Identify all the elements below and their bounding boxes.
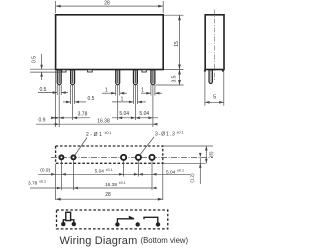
svg-text:(1.2): (1.2) — [190, 173, 195, 183]
svg-text:16.38: 16.38 — [105, 182, 117, 188]
svg-text:0.5: 0.5 — [32, 56, 38, 63]
svg-text:±0.1: ±0.1 — [119, 181, 126, 185]
svg-text:5: 5 — [213, 95, 216, 101]
svg-text:5.04: 5.04 — [139, 111, 149, 117]
svg-text:0.5: 0.5 — [88, 96, 95, 102]
svg-text:5.04: 5.04 — [166, 169, 176, 175]
svg-text:0.9: 0.9 — [39, 118, 46, 124]
svg-text:1: 1 — [141, 87, 144, 93]
svg-text:5.04: 5.04 — [119, 111, 129, 117]
svg-text:3.78: 3.78 — [28, 181, 38, 187]
svg-text:(6): (6) — [209, 151, 214, 157]
svg-text:0.5: 0.5 — [40, 87, 47, 93]
svg-text:3.78: 3.78 — [78, 111, 88, 117]
svg-text:±0.1: ±0.1 — [177, 130, 184, 134]
svg-text:1: 1 — [105, 87, 108, 93]
svg-text:Wiring Diagram: Wiring Diagram — [60, 235, 138, 247]
svg-text:28: 28 — [104, 1, 110, 7]
svg-text:±0.1: ±0.1 — [105, 131, 112, 135]
svg-text:15: 15 — [174, 41, 180, 47]
svg-text:(0.9): (0.9) — [40, 167, 50, 173]
svg-text:±0.1: ±0.1 — [106, 168, 113, 172]
svg-text:5.04: 5.04 — [95, 169, 105, 175]
svg-text:16.38: 16.38 — [97, 119, 110, 125]
svg-text:1: 1 — [121, 96, 124, 102]
svg-text:2-Ø1: 2-Ø1 — [86, 132, 104, 138]
svg-text:±0.1: ±0.1 — [177, 169, 184, 173]
svg-text:(Bottom view): (Bottom view) — [141, 236, 189, 245]
svg-text:3.5: 3.5 — [172, 75, 178, 82]
svg-text:±0.1: ±0.1 — [39, 180, 46, 184]
svg-text:3-Ø1.3: 3-Ø1.3 — [155, 131, 176, 137]
svg-text:28: 28 — [105, 192, 111, 198]
